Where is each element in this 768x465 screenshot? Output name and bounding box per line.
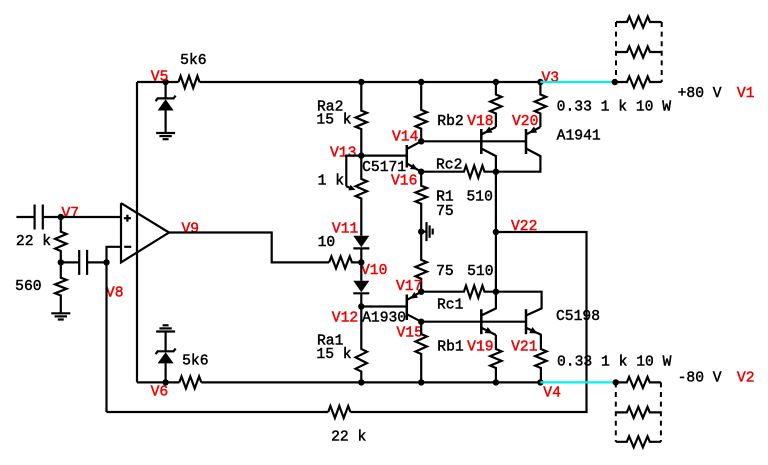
resistor 0.33 emitter upper-left: [490, 82, 501, 127]
resistor 22 k input: [55, 217, 66, 262]
svg-text:V17: V17: [396, 279, 422, 295]
node Ra2 top: [358, 79, 364, 85]
label V21: [511, 340, 537, 356]
wire op-amp output V9: [169, 233, 329, 263]
node V12: [358, 303, 364, 309]
svg-text:V19: V19: [467, 340, 493, 356]
label V15: [397, 326, 423, 342]
node Rc1/collectors junction: [493, 289, 499, 295]
node V8: [103, 259, 109, 265]
svg-text:V16: V16: [391, 174, 417, 190]
wire V8 up to op-amp -: [107, 247, 122, 263]
transistor Q6 C5198: [496, 292, 542, 335]
node load lower junction: [613, 379, 619, 385]
diode D2 V10-V12: [353, 262, 369, 306]
ground sideways: [421, 222, 433, 241]
transistor Q5 C5198: [481, 292, 496, 335]
node V10: [358, 259, 364, 265]
transistor Q4 A1941: [496, 127, 541, 172]
svg-text:15 k: 15 k: [316, 113, 351, 129]
wire V13 to Q1 base: [361, 155, 407, 157]
svg-text:V4: V4: [543, 386, 561, 402]
resistor 5k6 lower: [179, 376, 201, 388]
label V3: [542, 71, 560, 87]
svg-text:510: 510: [467, 264, 493, 280]
label 15 k lower: [316, 347, 351, 363]
label V18: [467, 114, 493, 130]
svg-text:V11: V11: [332, 222, 358, 238]
resistor 0.33 emitter lower-left: [490, 335, 501, 382]
svg-text:22 k: 22 k: [16, 234, 51, 250]
label Rb2: [437, 114, 463, 130]
label A1941: [557, 129, 601, 145]
wire supply vertical: [136, 82, 138, 382]
resistor 0.33 emitter upper-right: [535, 82, 546, 127]
label 1 k: [318, 173, 344, 189]
label V6: [151, 385, 169, 401]
label 0.33 1 k 10 W lower: [557, 354, 672, 370]
svg-text:V10: V10: [361, 263, 387, 279]
resistor Rb2: [416, 82, 427, 141]
potentiometer 1 k: [346, 156, 367, 236]
ground below V5 zener: [156, 133, 175, 139]
label 560: [15, 279, 41, 295]
svg-text:V2: V2: [737, 370, 755, 386]
label C5171: [362, 160, 406, 176]
label 22 k feedback: [331, 429, 366, 445]
svg-text:V21: V21: [511, 340, 537, 356]
resistor Rb1: [416, 322, 427, 383]
ground below 560: [51, 313, 70, 319]
node V14: [418, 138, 424, 144]
svg-text:Rc2: Rc2: [436, 157, 462, 173]
label 10: [318, 235, 336, 251]
label 510 lower: [467, 264, 493, 280]
svg-text:5k6: 5k6: [182, 354, 208, 370]
label V4: [543, 386, 561, 402]
node V13: [358, 152, 364, 158]
label 5k6 upper: [180, 53, 206, 69]
svg-text:-80 V: -80 V: [678, 370, 722, 386]
node V17: [418, 289, 424, 295]
label 75 lower: [436, 264, 454, 280]
label Rc2: [436, 157, 462, 173]
svg-text:A1930: A1930: [362, 310, 406, 326]
input coupling capacitor: [16, 205, 60, 230]
resistor R1 75: [416, 172, 427, 232]
label Rb1: [437, 340, 463, 356]
label 75 upper: [436, 204, 454, 220]
svg-text:V12: V12: [332, 311, 358, 327]
wire top rail: [137, 81, 540, 83]
wire bottom rail: [137, 381, 540, 383]
wire V12 to Q2 base: [361, 305, 407, 307]
wire cyan V3 to load: [540, 81, 614, 83]
svg-text:V13: V13: [330, 146, 356, 162]
node emitter res 1 top: [493, 79, 499, 85]
zener diode at V6: [156, 332, 176, 383]
svg-text:75: 75: [436, 204, 454, 220]
transistor Q2 A1930: [407, 292, 421, 322]
transistor Q1 C5171: [407, 141, 421, 171]
svg-text:V9: V9: [182, 222, 200, 238]
wire V7 to op-amp +: [61, 216, 121, 218]
resistor 75 lower: [416, 232, 427, 292]
label V5: [151, 69, 169, 85]
capacitor C2 to V8: [61, 250, 107, 275]
node Rb1 bottom: [418, 379, 424, 385]
inverted ground above V6 zener: [156, 325, 175, 331]
op-amp U1: [121, 203, 169, 262]
node mid ground: [418, 228, 424, 234]
svg-text:V5: V5: [151, 69, 169, 85]
wire V15 to output bases: [421, 321, 526, 323]
svg-text:Rc1: Rc1: [437, 297, 463, 313]
label V20: [512, 114, 538, 130]
wire V14 to output bases: [421, 140, 526, 142]
svg-text:0.33 1 k 10 W: 0.33 1 k 10 W: [557, 100, 672, 116]
transistor Q3 A1941: [481, 127, 496, 172]
label -80 V: [678, 370, 722, 386]
svg-text:1 k: 1 k: [318, 173, 344, 189]
label Rc1: [437, 297, 463, 313]
node 22k/560/cap junction: [58, 259, 64, 265]
node V6: [162, 379, 168, 385]
svg-text:A1941: A1941: [557, 129, 601, 145]
svg-text:75: 75: [436, 264, 454, 280]
label V1: [737, 86, 755, 102]
label 5k6 lower: [182, 354, 208, 370]
svg-text:V6: V6: [151, 385, 169, 401]
resistor Rc1 510: [421, 286, 496, 298]
node emitter res 3 bottom: [493, 379, 499, 385]
node V16: [418, 169, 424, 175]
svg-text:Rb1: Rb1: [437, 340, 463, 356]
svg-text:V14: V14: [392, 129, 418, 145]
svg-text:V7: V7: [62, 206, 80, 222]
load network upper (3 parallel resistors): [616, 17, 662, 88]
label 510 upper: [467, 190, 493, 206]
label V17: [396, 279, 422, 295]
label V2: [737, 370, 755, 386]
svg-text:15 k: 15 k: [316, 347, 351, 363]
svg-text:0.33 1 k 10 W: 0.33 1 k 10 W: [557, 354, 672, 370]
svg-text:V1: V1: [737, 86, 755, 102]
label 22 k: [16, 234, 51, 250]
label V10: [361, 263, 387, 279]
resistor Ra2 15 k: [356, 82, 367, 156]
label 0.33 1 k 10 W upper: [557, 100, 672, 116]
resistor 560: [55, 262, 66, 313]
svg-text:22 k: 22 k: [331, 429, 366, 445]
label V9: [182, 222, 200, 238]
wire feedback left segment: [107, 411, 329, 413]
resistor 0.33 emitter lower-right: [535, 335, 546, 382]
node V15: [418, 319, 424, 325]
label 15 k upper: [316, 113, 351, 129]
node V5: [162, 79, 168, 85]
load network lower (3 parallel resistors): [616, 377, 661, 447]
svg-text:560: 560: [15, 279, 41, 295]
svg-text:5k6: 5k6: [180, 53, 206, 69]
resistor Rc2 510: [421, 166, 496, 178]
zener diode at V5: [156, 82, 176, 133]
label +80 V: [678, 86, 722, 102]
node V22: [493, 229, 499, 235]
label Ra2: [317, 100, 343, 116]
label V12: [332, 311, 358, 327]
resistor Ra1 15 k: [356, 307, 367, 383]
svg-text:V3: V3: [542, 71, 560, 87]
wire V22 to feedback right: [350, 232, 586, 412]
label V16: [391, 174, 417, 190]
svg-text:C5198: C5198: [556, 309, 600, 325]
resistor 10: [329, 256, 361, 268]
label R1: [436, 190, 454, 206]
node Ra1 bottom: [358, 379, 364, 385]
resistor 5k6 upper: [179, 76, 200, 88]
label C5198: [556, 309, 600, 325]
label V19: [467, 340, 493, 356]
label V8: [106, 286, 124, 302]
node Rb2 top: [418, 79, 424, 85]
node V3: [537, 79, 543, 85]
label V22: [511, 219, 537, 235]
svg-text:510: 510: [467, 190, 493, 206]
svg-text:+80 V: +80 V: [678, 86, 722, 102]
label V7: [62, 206, 80, 222]
label Ra1: [317, 334, 343, 350]
label V11: [332, 222, 358, 238]
label V13: [330, 146, 356, 162]
wire cyan V4 to load: [540, 381, 615, 383]
label V14: [392, 129, 418, 145]
wire V8 down to feedback: [105, 262, 107, 412]
svg-text:Rb2: Rb2: [437, 114, 463, 130]
label A1930: [362, 310, 406, 326]
node V4: [537, 379, 543, 385]
node V7: [58, 214, 64, 220]
node Rc2/collectors junction: [493, 169, 499, 175]
diode D1 V11-V10: [353, 236, 369, 263]
node load upper junction: [612, 79, 618, 85]
wire V22 vertical: [495, 172, 497, 292]
svg-text:V8: V8: [106, 286, 124, 302]
resistor 22 k feedback: [328, 406, 350, 418]
